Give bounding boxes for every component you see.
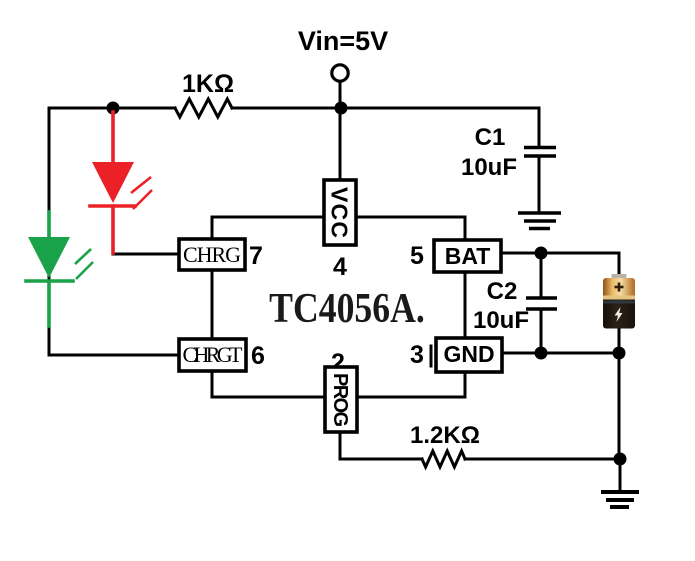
svg-text:TC4056A.: TC4056A. [269, 285, 425, 331]
svg-text:6: 6 [251, 342, 265, 370]
svg-text:10uF: 10uF [473, 307, 529, 334]
svg-text:7: 7 [249, 242, 263, 270]
svg-text:CHRG: CHRG [183, 242, 241, 267]
svg-text:4: 4 [333, 253, 347, 281]
svg-text:CHRGT: CHRGT [183, 342, 244, 367]
svg-text:C2: C2 [487, 278, 518, 305]
svg-text:10uF: 10uF [461, 154, 517, 181]
svg-text:VCC: VCC [327, 187, 353, 238]
svg-text:1KΩ: 1KΩ [182, 70, 234, 98]
svg-text:3: 3 [410, 341, 424, 369]
svg-text:BAT: BAT [445, 243, 491, 269]
svg-text:GND: GND [443, 341, 494, 367]
svg-text:1.2KΩ: 1.2KΩ [410, 422, 480, 449]
svg-text:Vin=5V: Vin=5V [298, 26, 388, 56]
svg-text:5: 5 [410, 242, 424, 270]
svg-text:C1: C1 [475, 124, 506, 151]
svg-text:PROG: PROG [329, 373, 351, 427]
